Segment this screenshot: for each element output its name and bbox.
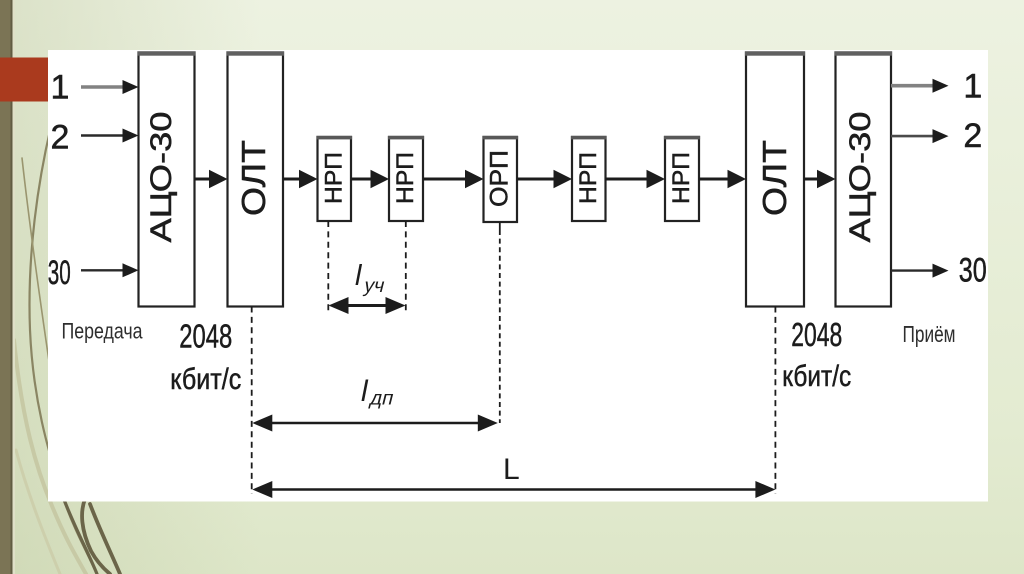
svg-text:ОЛТ: ОЛТ [235, 140, 272, 216]
svg-text:Приём: Приём [903, 321, 956, 347]
dimension l_уч [329, 297, 406, 314]
block НРП 1 [316, 136, 352, 221]
wire НРП2 to ОРП [423, 170, 484, 188]
block ОРП [482, 136, 518, 222]
block ОЛТ transmit [226, 51, 284, 306]
svg-text:2048: 2048 [179, 318, 232, 355]
svg-text:НРП: НРП [392, 152, 419, 204]
wire НРП1 to НРП2 [351, 170, 389, 188]
dashed drop from ОРП [499, 222, 501, 423]
svg-text:2: 2 [51, 119, 70, 157]
dashed drop from ОЛТ transmit [251, 307, 253, 495]
svg-text:АЦО-30: АЦО-30 [844, 112, 877, 243]
svg-text:Передача: Передача [62, 319, 144, 344]
svg-text:НРП: НРП [321, 152, 348, 204]
dimension l_дп [252, 415, 497, 432]
svg-text:АЦО-30: АЦО-30 [145, 112, 178, 243]
wire АЦО-30 to ОЛТ [195, 170, 228, 188]
output wire channel 1 [891, 79, 949, 93]
svg-text:кбит/с: кбит/с [170, 363, 241, 396]
wire ОРП to НРП3 [517, 170, 572, 188]
block НРП 3 [571, 136, 607, 221]
wire НРП3 to НРП4 [606, 170, 666, 188]
svg-text:НРП: НРП [575, 152, 602, 204]
input wire channel 2 [81, 129, 139, 143]
input wire channel 30 [81, 263, 139, 277]
wire ОЛТ to НРП1 [283, 170, 318, 188]
svg-text:30: 30 [959, 251, 987, 289]
dimension L [252, 481, 775, 498]
block АЦО-30 receive [834, 51, 892, 306]
svg-text:2048: 2048 [791, 316, 842, 353]
output wire channel 2 [891, 129, 949, 143]
block НРП 2 [388, 136, 424, 221]
svg-text:L: L [503, 453, 520, 486]
wire ОЛТ to АЦО-30 [804, 170, 836, 188]
output wire channel 30 [891, 264, 949, 278]
dashed drop from НРП1 [327, 221, 329, 313]
dashed drop from ОЛТ receive [774, 307, 776, 495]
block ОЛТ receive [745, 51, 805, 306]
label l_дп [361, 375, 396, 409]
svg-text:2: 2 [963, 117, 982, 155]
block НРП 4 [664, 136, 700, 221]
svg-text:ОРП: ОРП [486, 150, 514, 207]
dashed drop from НРП2 [405, 221, 407, 313]
wire НРП4 to ОЛТ [699, 170, 746, 188]
svg-text:1: 1 [963, 68, 982, 106]
svg-text:НРП: НРП [668, 152, 695, 204]
svg-text:1: 1 [51, 69, 70, 107]
input wire channel 1 [81, 80, 139, 94]
svg-text:кбит/с: кбит/с [782, 360, 851, 393]
label l_уч [355, 260, 387, 297]
svg-text:ОЛТ: ОЛТ [756, 140, 793, 216]
block АЦО-30 transmit [137, 51, 195, 306]
svg-text:30: 30 [48, 254, 71, 292]
